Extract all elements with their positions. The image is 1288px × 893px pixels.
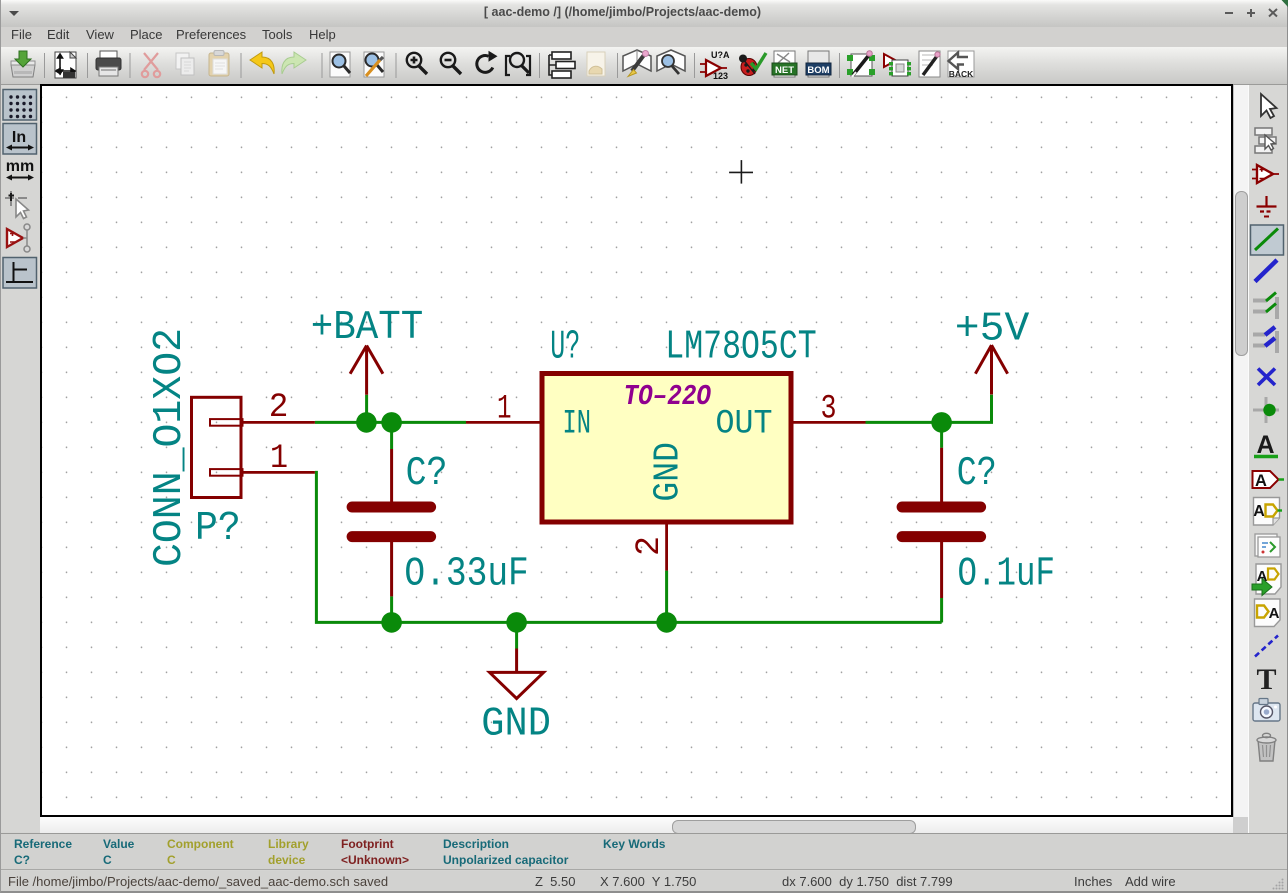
svg-text:U?A: U?A xyxy=(711,50,730,60)
svg-text:P?: P? xyxy=(195,506,241,552)
svg-text:mm: mm xyxy=(6,158,34,175)
svg-text:BACK: BACK xyxy=(949,69,974,79)
svg-text:GND: GND xyxy=(481,702,551,748)
svg-text:LM78O5CT: LM78O5CT xyxy=(665,325,816,371)
svg-text:OUT: OUT xyxy=(716,406,773,444)
svg-text:O.33uF: O.33uF xyxy=(404,552,528,598)
svg-text:1: 1 xyxy=(497,391,512,429)
svg-text:3: 3 xyxy=(821,391,837,429)
svg-text:U?: U? xyxy=(550,325,580,371)
svg-text:TO–22O: TO–22O xyxy=(624,380,712,413)
svg-text:A: A xyxy=(1253,503,1265,520)
svg-text:+5V: +5V xyxy=(955,307,1030,353)
svg-text:A: A xyxy=(1269,605,1280,622)
svg-text:1: 1 xyxy=(270,440,288,478)
svg-text:C?: C? xyxy=(406,451,448,497)
svg-text:123: 123 xyxy=(713,71,728,81)
svg-text:BOM: BOM xyxy=(807,65,829,76)
svg-text:T: T xyxy=(1256,663,1276,696)
svg-text:2: 2 xyxy=(631,536,669,556)
svg-text:CONN_O1XO2: CONN_O1XO2 xyxy=(147,328,193,567)
svg-text:A: A xyxy=(1255,472,1267,490)
svg-text:2: 2 xyxy=(269,389,289,427)
svg-text:+BATT: +BATT xyxy=(311,305,424,351)
svg-text:NET: NET xyxy=(775,65,794,76)
svg-text:IN: IN xyxy=(563,406,592,444)
svg-text:GND: GND xyxy=(648,442,689,502)
svg-text:In: In xyxy=(12,129,26,146)
svg-text:O.1uF: O.1uF xyxy=(958,552,1056,598)
svg-text:C?: C? xyxy=(957,451,997,497)
